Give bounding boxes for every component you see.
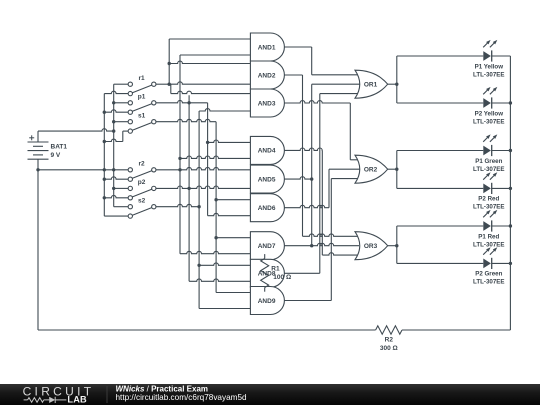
svg-text:LTL-307EE: LTL-307EE	[473, 241, 505, 248]
svg-text:AND1: AND1	[258, 44, 276, 51]
svg-text:LTL-307EE: LTL-307EE	[473, 279, 505, 286]
svg-text:BAT1: BAT1	[51, 143, 68, 150]
svg-text:s1: s1	[138, 113, 146, 120]
svg-text:R2: R2	[385, 337, 394, 344]
svg-text:s2: s2	[138, 198, 146, 205]
svg-text:9 V: 9 V	[51, 152, 61, 159]
svg-text:OR2: OR2	[364, 167, 378, 174]
svg-text:300 Ω: 300 Ω	[380, 345, 398, 352]
svg-text:OR1: OR1	[364, 82, 378, 89]
svg-text:r1: r1	[139, 75, 146, 82]
svg-text:P2 Red: P2 Red	[478, 196, 499, 203]
svg-text:P1 Red: P1 Red	[478, 233, 499, 240]
svg-text:LTL-307EE: LTL-307EE	[473, 204, 505, 211]
svg-text:AND7: AND7	[258, 243, 276, 250]
svg-text:P1 Green: P1 Green	[475, 158, 502, 165]
svg-text:LTL-307EE: LTL-307EE	[473, 118, 505, 125]
svg-text:P1 Yellow: P1 Yellow	[475, 63, 504, 70]
svg-text:r2: r2	[139, 161, 146, 168]
svg-text:AND3: AND3	[258, 100, 276, 107]
svg-text:p2: p2	[138, 179, 146, 186]
svg-text:http://circuitlab.com/c6rq78va: http://circuitlab.com/c6rq78vayam5d	[116, 393, 248, 402]
svg-text:P2 Green: P2 Green	[475, 271, 502, 278]
svg-text:LAB: LAB	[67, 395, 87, 405]
svg-text:LTL-307EE: LTL-307EE	[473, 71, 505, 78]
svg-text:LTL-307EE: LTL-307EE	[473, 166, 505, 173]
svg-text:100 Ω: 100 Ω	[273, 274, 291, 281]
svg-text:R1: R1	[271, 266, 280, 273]
svg-text:AND2: AND2	[258, 72, 276, 79]
svg-text:P2 Yellow: P2 Yellow	[475, 110, 504, 117]
svg-text:OR3: OR3	[364, 243, 378, 250]
svg-text:AND6: AND6	[258, 205, 276, 212]
svg-text:AND4: AND4	[258, 148, 276, 155]
svg-text:p1: p1	[138, 94, 146, 101]
svg-text:AND5: AND5	[258, 176, 276, 183]
svg-text:AND9: AND9	[258, 298, 276, 305]
